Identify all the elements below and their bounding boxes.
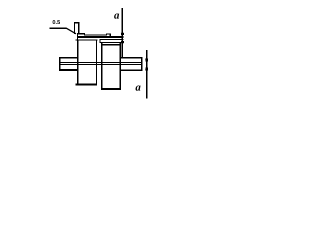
bottom dimension arrow lower xyxy=(145,65,148,71)
shaft right end cap xyxy=(141,57,142,71)
right hub bottom edge xyxy=(101,88,121,90)
plate top edge B xyxy=(84,35,107,36)
plate step down xyxy=(84,33,85,36)
plate left edge xyxy=(77,33,78,40)
shaft bore line lower xyxy=(59,64,143,65)
extension edge right of gap xyxy=(100,39,124,40)
dimension line a (top) xyxy=(122,8,123,57)
left hub bottom edge xyxy=(76,84,98,86)
shaft right segment bottom xyxy=(120,69,142,71)
shaft bore line upper xyxy=(59,62,143,63)
left hub right edge xyxy=(96,40,97,85)
top dimension arrow lower xyxy=(121,39,124,43)
top dimension arrow upper xyxy=(121,33,124,37)
right hub top edge B xyxy=(101,44,119,45)
label a (bottom) xyxy=(136,86,141,91)
left hub top edge xyxy=(75,40,97,41)
dimension line a (bottom right) xyxy=(146,50,147,99)
screw tab left side xyxy=(74,22,75,34)
plate lip step xyxy=(106,34,107,36)
label a (top) xyxy=(114,14,119,19)
right hub right edge xyxy=(119,42,120,90)
right hub top edge A xyxy=(100,42,121,43)
plate lip right edge xyxy=(110,34,111,38)
label 0.5 (gap value) xyxy=(53,20,56,24)
shaft left segment top xyxy=(59,57,78,59)
bottom dimension arrow upper xyxy=(145,59,148,65)
shaft left end cap xyxy=(59,57,61,71)
screw tab top xyxy=(74,22,79,24)
shaft left segment bottom xyxy=(59,69,78,71)
left hub left edge xyxy=(77,40,79,85)
screw tab right side xyxy=(78,22,79,34)
leader diagonal to plate xyxy=(66,28,76,34)
right hub step vertical xyxy=(100,39,101,43)
plate lip top xyxy=(106,34,111,35)
plate top edge A xyxy=(77,33,85,34)
right hub left edge xyxy=(101,42,103,90)
shaft right segment top xyxy=(119,57,142,59)
plate bottom edge / extension line to dimension xyxy=(77,36,124,38)
leader underline for 0.5 xyxy=(50,27,67,29)
